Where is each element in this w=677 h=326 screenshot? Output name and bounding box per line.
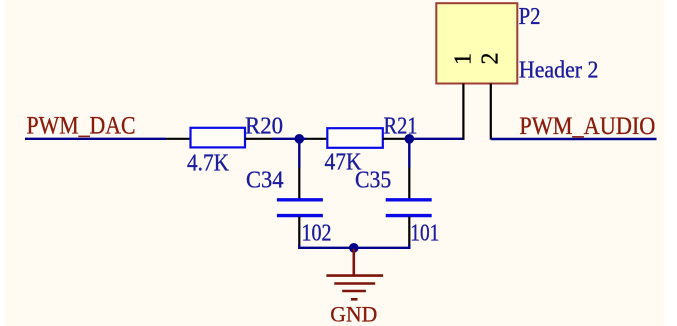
svg-text:4.7K: 4.7K xyxy=(187,151,230,177)
svg-text:C34: C34 xyxy=(246,168,284,194)
svg-text:P2: P2 xyxy=(519,4,541,30)
connector P2 pin 1 xyxy=(462,84,464,140)
connector P2 body xyxy=(436,3,517,83)
capacitor C35 pin 1 xyxy=(408,168,410,200)
wire PWM_AUDIO net segment xyxy=(491,138,657,140)
wire node A down xyxy=(298,139,300,168)
svg-text:101: 101 xyxy=(410,221,439,247)
resistor R21 pin 1 xyxy=(306,138,328,140)
designator C35 xyxy=(355,168,391,194)
net label PWM_AUDIO xyxy=(519,113,655,140)
resistor R20 pin 1 xyxy=(166,138,191,140)
wire node B to header xyxy=(409,138,464,140)
designator R20 xyxy=(245,114,283,140)
net label GND xyxy=(330,302,377,326)
junction node A xyxy=(295,134,305,144)
capacitor C35 plates xyxy=(386,200,432,216)
comment Header 2 xyxy=(519,58,599,84)
pin number 1 xyxy=(451,53,477,65)
resistor R20 body xyxy=(191,128,246,148)
value 101 xyxy=(410,221,439,247)
capacitor C34 pin 1 xyxy=(298,168,300,200)
designator P2 xyxy=(519,4,541,30)
ground GND symbol xyxy=(326,249,383,299)
svg-text:PWM_AUDIO: PWM_AUDIO xyxy=(519,113,655,140)
svg-text:2: 2 xyxy=(478,53,504,65)
svg-text:102: 102 xyxy=(302,221,332,247)
connector P2 pin 2 xyxy=(490,84,492,140)
capacitor C35 pin 2 xyxy=(408,217,410,246)
designator R21 xyxy=(384,114,418,140)
pin number 2 xyxy=(478,53,504,65)
value 4.7K xyxy=(187,151,230,177)
wire node B down xyxy=(408,139,410,168)
svg-text:R20: R20 xyxy=(245,114,283,140)
svg-text:C35: C35 xyxy=(355,168,391,194)
resistor R21 pin 2 xyxy=(383,138,410,140)
resistor R21 body xyxy=(327,128,383,148)
wire PWM_DAC net segment xyxy=(25,138,166,140)
svg-text:Header 2: Header 2 xyxy=(519,58,599,84)
capacitor C34 plates xyxy=(277,200,323,216)
wire R20 to node A xyxy=(272,138,306,140)
resistor R20 pin 2 xyxy=(245,138,272,140)
wire bottom bus to ground node xyxy=(299,245,409,248)
capacitor C34 pin 2 xyxy=(298,217,300,246)
svg-text:1: 1 xyxy=(451,53,477,65)
svg-text:GND: GND xyxy=(330,302,377,326)
value 47K xyxy=(325,150,363,176)
junction node B xyxy=(405,134,415,144)
designator C34 xyxy=(246,168,284,194)
junction ground node xyxy=(349,243,359,253)
svg-text:PWM_DAC: PWM_DAC xyxy=(27,113,136,140)
value 102 xyxy=(302,221,332,247)
net label PWM_DAC xyxy=(27,113,136,140)
